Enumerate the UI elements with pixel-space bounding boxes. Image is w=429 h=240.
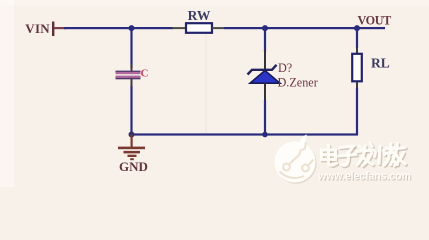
pin D cathode [264,50,266,70]
svg-text:VIN: VIN [25,21,50,36]
wire RL branch lower [356,88,358,136]
pin RL.1 [356,47,358,54]
resistor RW [186,23,212,33]
wire C branch lower [130,86,132,135]
watermark char 发 [357,143,374,166]
watermark char 烧 [375,144,398,166]
watermark logo trace 2 [308,160,314,166]
svg-text:GND: GND [119,159,148,174]
ground bar 1 [118,147,145,150]
watermark logo smile arc [280,172,305,178]
svg-text:RL: RL [371,56,390,71]
watermark CJK shadow [323,144,407,167]
wire C branch upper [130,28,132,68]
pin RW.1 [172,27,186,29]
junction node C top [129,25,135,31]
wire zener branch lower [264,100,266,135]
svg-text:VOUT: VOUT [358,14,392,28]
watermark logo circle [275,142,316,183]
svg-text:www.elecfans.com: www.elecfans.com [317,171,411,183]
watermark logo shadow [276,143,317,184]
pin C.1 [131,64,133,71]
ground bar 3 [128,155,137,157]
pin C.2 [131,79,133,87]
wire bottom rail [130,133,357,135]
watermark logo via left [283,164,290,171]
watermark char 子 [339,146,357,165]
watermark logo trace [289,142,306,165]
pin D anode [264,83,266,101]
ground GND stem [131,135,133,148]
svg-text:D?: D? [278,61,292,75]
resistor RL [352,54,362,82]
watermark logo via right [302,165,309,172]
diode D? zener cathode bar [248,65,277,75]
ghost artifact line [205,34,206,133]
junction node VOUT/RL [354,25,360,31]
wire RL branch upper [356,28,358,48]
wire zener branch upper [264,28,266,52]
junction node zener top [262,25,268,31]
capacitor C plate 1 [116,71,141,72]
diode D? triangle [250,71,280,84]
junction node GND [129,132,135,138]
watermark char 电 [322,146,337,166]
svg-text:D.Zener: D.Zener [278,76,318,90]
watermark logo flag [299,134,308,147]
capacitor C plate 2 [116,76,141,78]
pin RW.2 [212,27,224,29]
port VIN bar [52,22,54,37]
junction node zener bottom [262,132,268,138]
svg-text:C: C [141,68,149,80]
watermark char 友 [391,144,406,166]
ground bar 4 [130,158,134,160]
wire VIN stub (maroon) [54,27,66,29]
pin RL.2 [356,82,358,90]
background edge lightening [0,0,14,187]
ground bar 2 [124,151,141,154]
wire top (RW to VOUT end) [224,27,385,29]
svg-text:RW: RW [188,8,211,23]
wire top left (VIN to RW) [64,27,173,29]
